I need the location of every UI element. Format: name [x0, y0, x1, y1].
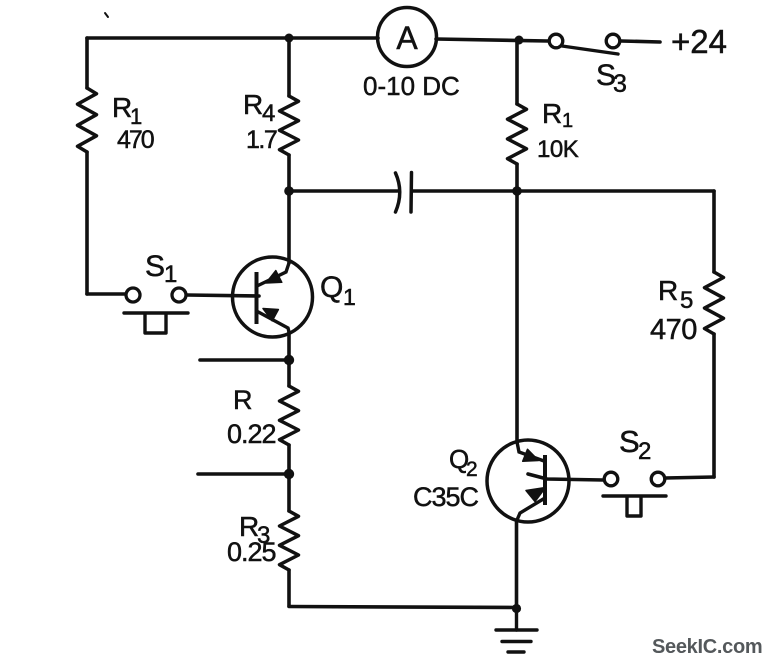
switch S2 plunger	[627, 497, 641, 516]
resistor R 0.22	[280, 386, 299, 445]
resistor R4 1.7	[280, 96, 299, 155]
wire top rail right of ammeter	[436, 39, 548, 41]
transistor Q1 emitter arrow	[263, 309, 278, 321]
wire far right vertical lower	[712, 334, 716, 477]
node junction bottom	[512, 604, 521, 613]
capacitor C1 right plate	[409, 173, 413, 213]
svg-text:0.22: 0.22	[227, 419, 276, 449]
wire Q2 emitter down	[515, 520, 519, 607]
svg-text:+24: +24	[671, 23, 727, 60]
wire bottom rail	[289, 607, 517, 608]
svg-text:1: 1	[343, 284, 356, 310]
transistor Q2 base bar	[543, 455, 547, 505]
switch S1 terminal 1	[126, 288, 140, 302]
transistor Q2 collector arrow	[523, 449, 539, 461]
svg-text:Q: Q	[320, 271, 343, 304]
svg-text:4: 4	[262, 100, 275, 127]
stray ink speck top left	[105, 13, 108, 17]
switch S3 terminal 1	[549, 34, 563, 48]
svg-text:5: 5	[680, 287, 693, 314]
svg-text:R: R	[658, 275, 678, 306]
svg-text:A: A	[396, 20, 418, 56]
wire stub lower left of R	[198, 472, 289, 476]
node junction mid center	[284, 186, 294, 196]
switch S1 terminal 2	[172, 288, 186, 302]
svg-text:R: R	[243, 89, 263, 120]
svg-text:S: S	[145, 250, 165, 283]
transistor Q1 collector lead	[257, 263, 289, 286]
wire mid rail right of capacitor	[412, 189, 714, 193]
switch S1 plunger	[145, 314, 166, 333]
capacitor C1 left plate	[396, 173, 400, 212]
transistor Q2 collector lead	[517, 442, 544, 461]
wire left rail lower	[85, 152, 89, 294]
transistor Q2 body	[487, 440, 569, 522]
svg-text:2: 2	[638, 438, 651, 465]
transistor Q1 collector arrow	[266, 271, 282, 283]
switch S3 blade	[562, 46, 618, 54]
svg-text:10K: 10K	[537, 136, 579, 163]
wire center rail upper	[287, 38, 291, 96]
svg-text:S: S	[619, 424, 640, 459]
svg-text:R: R	[542, 98, 562, 129]
wire center rail between R and R3	[287, 445, 291, 511]
node junction top right	[515, 36, 524, 45]
ammeter A body	[378, 8, 437, 67]
wire right rail mid to Q2	[515, 191, 519, 442]
wire stub upper left of R	[200, 358, 289, 362]
wire center rail Q1 emitter down	[287, 332, 291, 386]
switch S2 terminal 1	[604, 472, 618, 486]
switch S2 terminal 2	[651, 472, 665, 486]
wire S1 to Q1 base	[187, 295, 259, 296]
svg-text:C35C: C35C	[413, 482, 479, 512]
svg-text:1: 1	[164, 261, 177, 288]
wire left rail to S1	[87, 292, 125, 296]
switch S1 bar	[124, 311, 188, 314]
node junction stub upper	[284, 355, 294, 365]
transistor Q2 emitter lead	[517, 498, 545, 520]
wire far right vertical upper	[712, 191, 716, 272]
wire far right to S2	[665, 477, 714, 478]
svg-text:3: 3	[613, 70, 627, 98]
wire mid rail left of capacitor	[289, 189, 398, 193]
resistor R1 10K (right)	[508, 104, 527, 164]
node junction mid right	[512, 186, 522, 196]
transistor Q2 emitter arrow	[526, 488, 546, 502]
resistor R3 0.25	[280, 511, 299, 570]
ground symbol	[496, 607, 537, 652]
switch S2 bar	[603, 494, 666, 497]
resistor R5 470	[705, 272, 724, 334]
svg-text:1.7: 1.7	[246, 126, 277, 154]
svg-text:470: 470	[117, 126, 154, 154]
wire center rail R4 to Q1	[287, 155, 291, 263]
svg-text:SeekIC.com: SeekIC.com	[652, 636, 762, 658]
wire S2 to Q2 base	[528, 474, 603, 480]
svg-text:2: 2	[466, 458, 478, 481]
svg-text:470: 470	[650, 314, 697, 346]
svg-text:1: 1	[562, 110, 573, 132]
resistor R1 470 (left)	[78, 88, 97, 152]
svg-text:R: R	[233, 385, 253, 415]
switch S3 terminal 2	[606, 34, 620, 48]
wire S3 to +24	[621, 41, 660, 42]
transistor Q1 emitter lead	[257, 311, 290, 332]
wire center rail below R3	[287, 570, 291, 606]
transistor Q1 base bar	[255, 272, 259, 324]
wire right rail R1 to mid	[515, 164, 519, 191]
wire left rail upper	[85, 38, 89, 88]
wire right rail R1 down	[515, 40, 519, 104]
svg-text:0.25: 0.25	[227, 537, 276, 567]
transistor Q1 body	[233, 257, 313, 337]
svg-text:0-10 DC: 0-10 DC	[363, 71, 460, 101]
node junction stub lower	[284, 469, 294, 479]
wire top rail left	[87, 36, 378, 40]
node junction top center	[285, 34, 294, 43]
